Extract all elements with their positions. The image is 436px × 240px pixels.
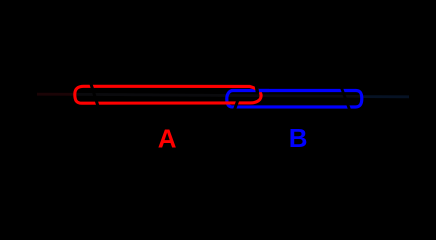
svg-text:A: A <box>158 124 177 154</box>
svg-text:B: B <box>289 123 308 153</box>
